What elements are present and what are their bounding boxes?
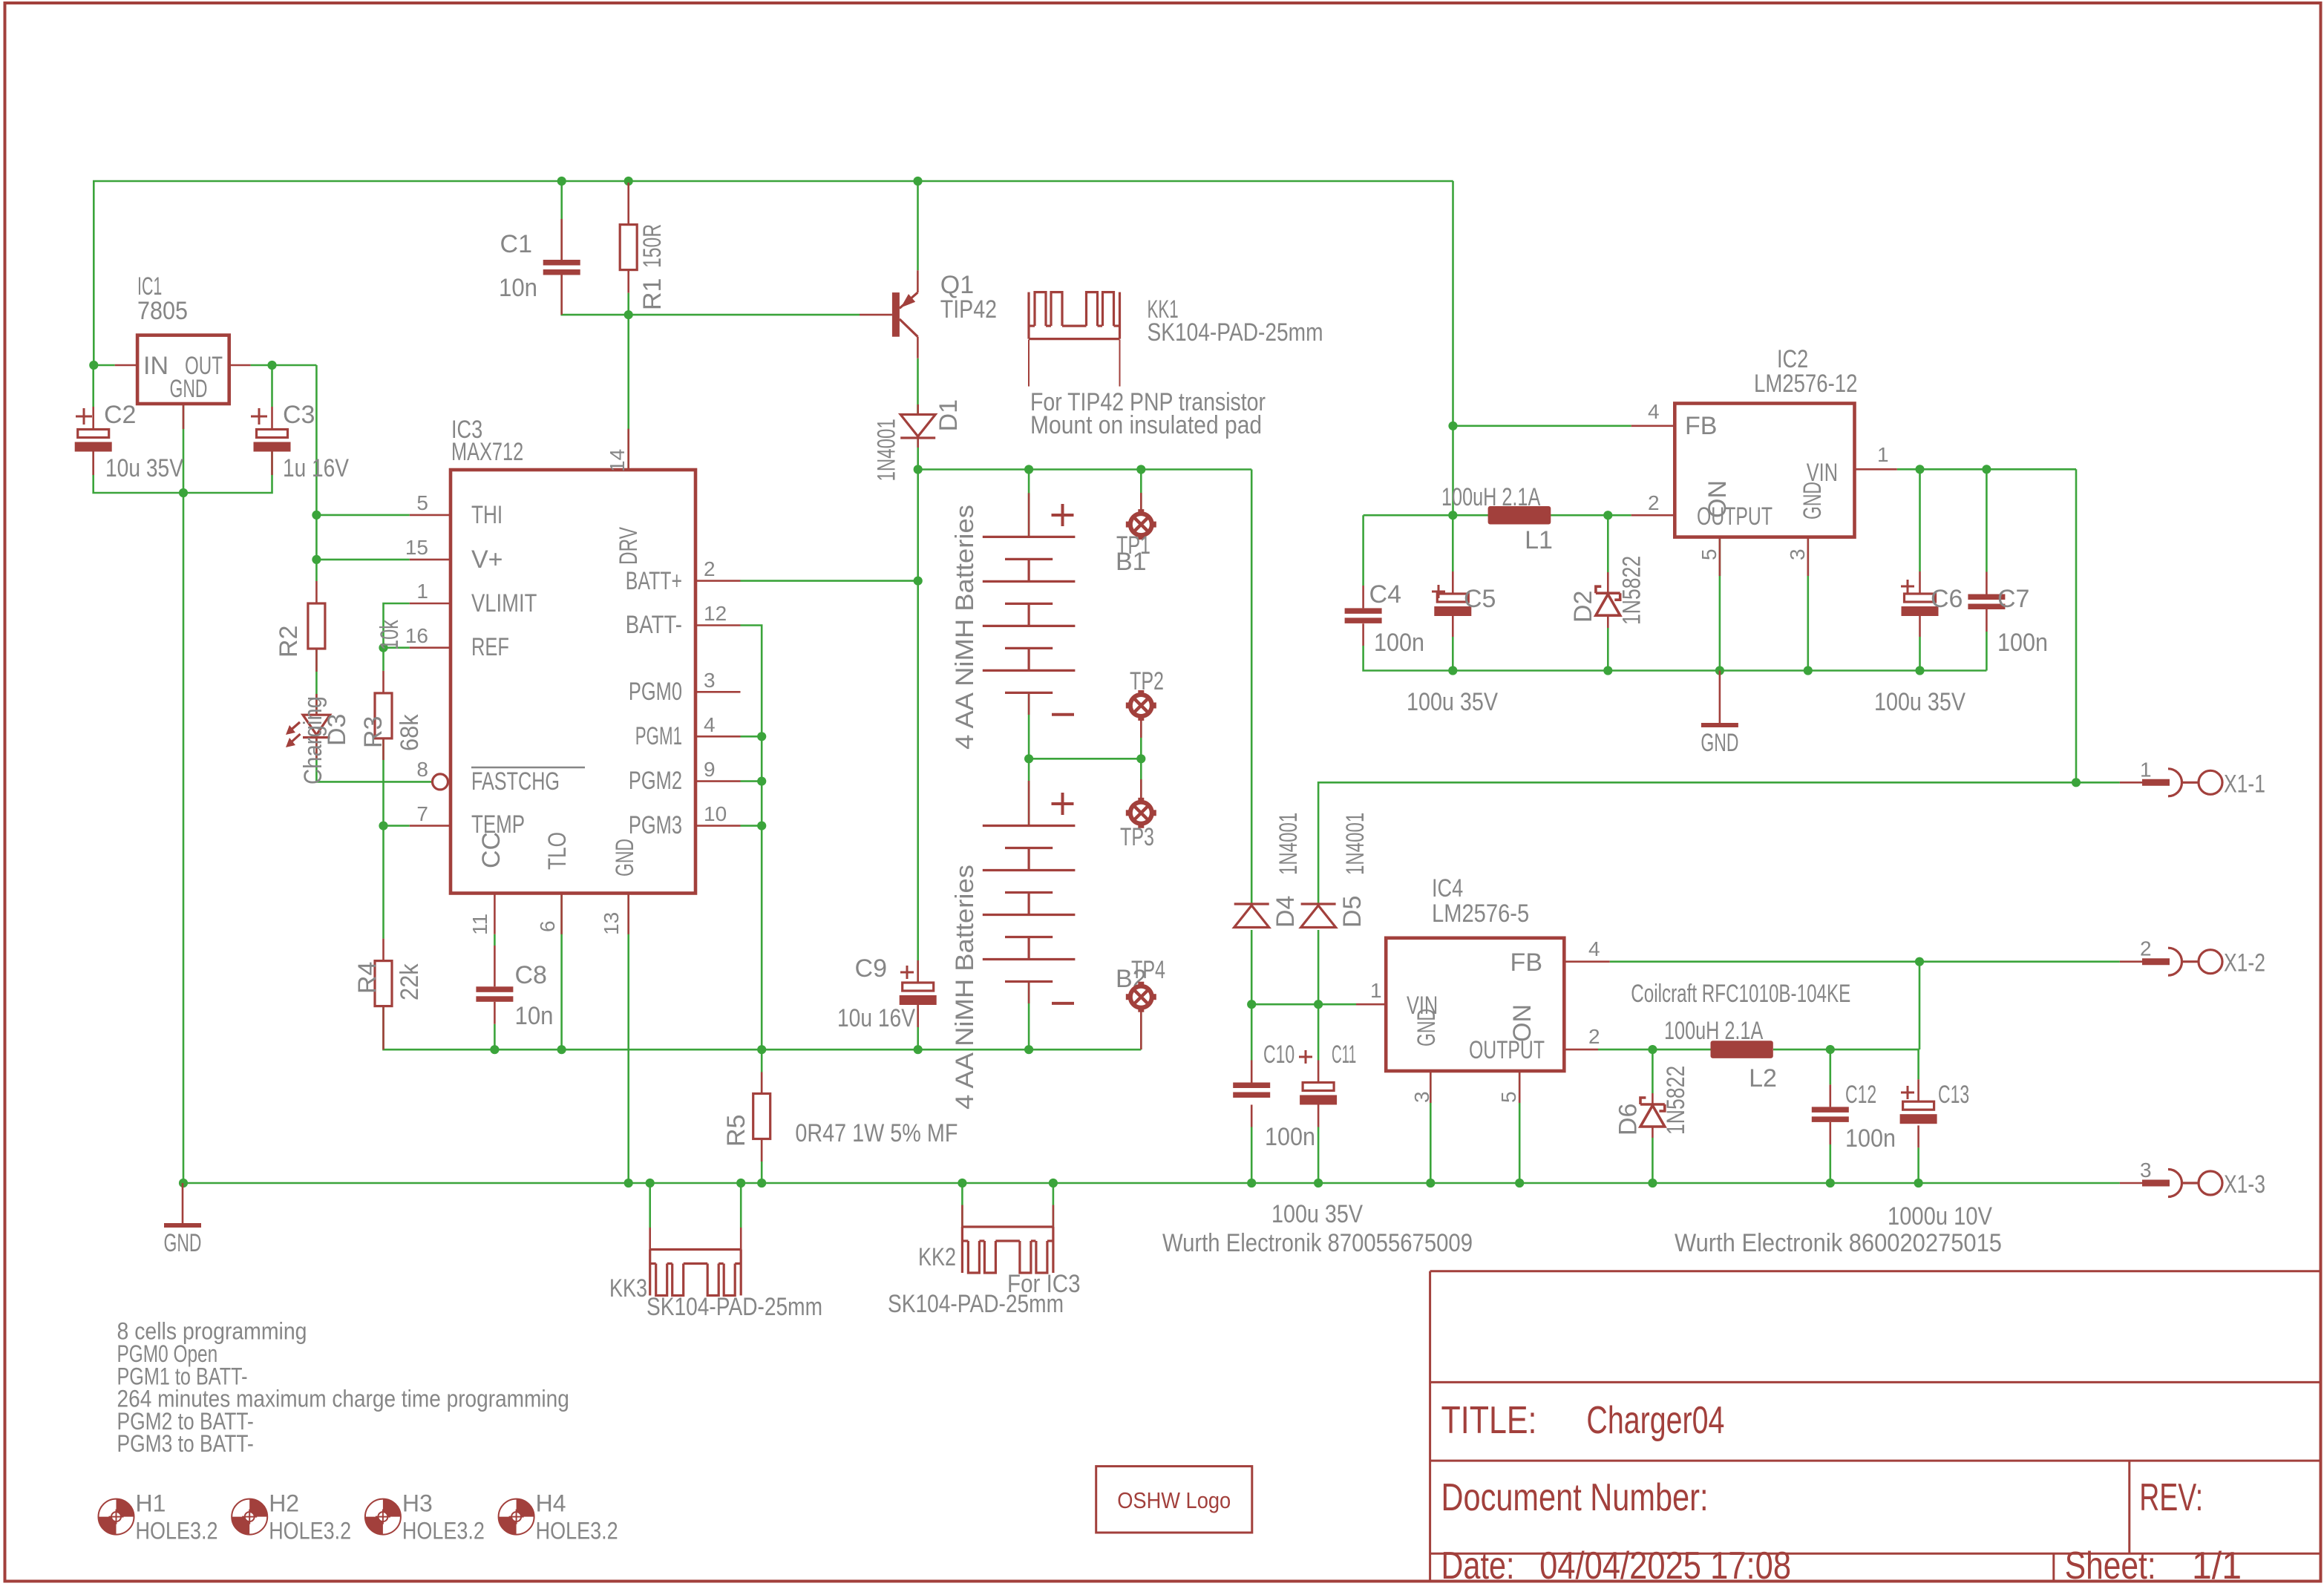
svg-text:1N5822: 1N5822 xyxy=(1617,556,1646,625)
battery B2 4 AA NiMH xyxy=(1028,781,1030,826)
capacitor C8 10n xyxy=(494,946,496,986)
wire THI stub link xyxy=(316,514,409,517)
test point TP1 xyxy=(1140,493,1142,514)
svg-text:C7: C7 xyxy=(1997,585,2029,613)
junction at (1386,1414) xyxy=(1024,1045,1033,1054)
test point TP4 xyxy=(1127,983,1155,1011)
wire GND long vertical to bottom rail xyxy=(183,493,185,1183)
svg-text:C4: C4 xyxy=(1369,580,1401,609)
svg-text:12: 12 xyxy=(704,602,727,625)
svg-text:R2: R2 xyxy=(275,626,303,658)
wire C11 bottom to rail xyxy=(1318,1105,1320,1127)
wire D2 top xyxy=(1607,515,1609,572)
svg-text:IN: IN xyxy=(143,352,168,380)
svg-text:11: 11 xyxy=(468,914,491,935)
junction at (1537,632) xyxy=(1136,465,1145,474)
wire PGM3 link xyxy=(741,825,762,827)
svg-text:PGM1: PGM1 xyxy=(635,722,682,750)
wire IC1 IN row xyxy=(94,364,114,367)
svg-text:R3: R3 xyxy=(359,716,387,748)
wire IC2 output vertical to FB and L1 row xyxy=(1452,181,1454,517)
resistor R4 22k xyxy=(375,961,392,1006)
wire X1-2 to L2 row vertical xyxy=(1919,962,1921,1049)
svg-text:4 AA NiMH Batteries: 4 AA NiMH Batteries xyxy=(951,865,979,1110)
junction at (516,873) xyxy=(379,643,387,652)
svg-text:GND: GND xyxy=(164,1229,202,1257)
wire C12 drop xyxy=(1830,1049,1832,1084)
svg-text:100n: 100n xyxy=(1374,629,1424,657)
junction at (1927,1594) xyxy=(1426,1179,1435,1187)
svg-text:1u 16V: 1u 16V xyxy=(283,454,349,482)
inductor L1 100uH xyxy=(1488,514,1551,517)
wire GND pin13 drop to rail xyxy=(627,894,629,1184)
svg-text:2: 2 xyxy=(704,557,716,580)
svg-text:3: 3 xyxy=(2140,1159,2152,1182)
wire B2 top stub xyxy=(1028,759,1030,825)
wire +V top bus xyxy=(94,181,1453,365)
wire C6 bottom xyxy=(1919,616,1921,637)
wire IC1 OUT to C3/THI branch xyxy=(251,364,317,367)
svg-text:3: 3 xyxy=(704,669,716,692)
wire C8 bottom xyxy=(494,1024,496,1049)
wire IC2 gnd bus xyxy=(1453,669,1986,672)
junction at (876,1594) xyxy=(646,1179,655,1187)
junction at (1776,1353) xyxy=(1314,1000,1323,1009)
svg-text:X1-3: X1-3 xyxy=(2224,1170,2265,1199)
svg-text:68k: 68k xyxy=(396,714,424,751)
junction at (2466,1594) xyxy=(1826,1179,1835,1187)
wire R3 bottom to TEMP junction xyxy=(382,738,384,939)
wire C11 drop xyxy=(1318,1004,1320,1060)
diode D1 1N4001 xyxy=(917,404,919,415)
capacitor C4 100n xyxy=(1345,608,1382,614)
svg-text:GND: GND xyxy=(170,375,208,403)
connector pin X1-3 xyxy=(2120,1182,2142,1185)
wire Q1 collector to D1 xyxy=(917,358,919,414)
wire IC4 FB row to X1-2 xyxy=(1610,960,2120,963)
resistor R3 68k xyxy=(382,671,384,693)
svg-text:CC: CC xyxy=(477,832,505,868)
svg-text:Charger04: Charger04 xyxy=(1586,1399,1724,1442)
wire C4 left branch xyxy=(1362,515,1364,586)
svg-text:14: 14 xyxy=(606,449,629,472)
svg-text:PGM2: PGM2 xyxy=(629,767,682,795)
wire top bus to BATT+ and C9 xyxy=(917,470,919,983)
wire KK3 left leg xyxy=(649,1183,651,1228)
svg-text:TIP42: TIP42 xyxy=(940,295,997,324)
wire D6 bottom to rail xyxy=(1652,1138,1654,1183)
LED D3 Charging xyxy=(315,694,318,715)
svg-text:6: 6 xyxy=(536,920,559,932)
junction at (1957,694) xyxy=(1448,511,1457,520)
capacitor C3 xyxy=(257,430,288,438)
wire bottom GND rail xyxy=(183,1182,2120,1185)
wire C1 bottom to Q1 base xyxy=(562,271,860,315)
mounting hole H1 xyxy=(117,1499,134,1517)
wire IC2 pin3 drop xyxy=(1807,537,1810,671)
svg-text:100u 35V: 100u 35V xyxy=(1874,688,1965,716)
junction at (516,1113) xyxy=(379,822,387,830)
svg-text:1N4001: 1N4001 xyxy=(1274,813,1303,875)
svg-text:IC4: IC4 xyxy=(1432,874,1463,902)
svg-text:BATT+: BATT+ xyxy=(626,567,682,595)
junction at (847,424) xyxy=(624,310,633,319)
junction at (1237,632) xyxy=(914,465,923,474)
wire IC2 FB row xyxy=(1453,425,1631,427)
svg-text:HOLE3.2: HOLE3.2 xyxy=(269,1518,351,1544)
inductor L2 100uH Coilcraft xyxy=(1711,1041,1773,1058)
wire C1 top drop xyxy=(560,181,563,260)
svg-text:PGM3 to BATT-: PGM3 to BATT- xyxy=(117,1430,254,1457)
junction at (2676,632) xyxy=(1982,465,1991,474)
battery B1 4 AA NiMH xyxy=(1028,493,1030,537)
LED D3 arrows xyxy=(289,722,300,732)
wire PGM1 link xyxy=(741,735,762,738)
svg-text:H3: H3 xyxy=(402,1490,433,1517)
wire R4 bottom corner to BATT- bus xyxy=(384,1005,1142,1049)
svg-text:GND: GND xyxy=(1798,482,1827,520)
junction at (426,754) xyxy=(312,555,321,564)
wire C12 bottom to rail xyxy=(1830,1122,1832,1144)
wire TEMP stub link xyxy=(384,825,410,827)
junction at (1386,1022) xyxy=(1024,754,1033,763)
svg-text:5: 5 xyxy=(1698,548,1721,560)
wire VLIMIT to REF link xyxy=(384,603,410,671)
wire TP4 stub xyxy=(1140,1008,1142,1049)
svg-text:H4: H4 xyxy=(536,1490,566,1517)
charge controller IC3 MAX712 xyxy=(451,470,695,894)
junction at (2586,904) xyxy=(1915,666,1924,675)
svg-text:HOLE3.2: HOLE3.2 xyxy=(136,1518,218,1544)
wire TP1 stub xyxy=(1140,470,1142,514)
svg-text:R4: R4 xyxy=(353,962,382,994)
svg-text:C13: C13 xyxy=(1938,1081,1969,1109)
junction at (2166,694) xyxy=(1603,511,1612,520)
wire battery top bus xyxy=(918,468,1252,471)
svg-text:5: 5 xyxy=(1497,1091,1520,1103)
wire D3 cathode to FASTCHG xyxy=(316,738,431,782)
ground symbol bottom left xyxy=(182,1183,184,1224)
svg-text:16: 16 xyxy=(405,624,428,647)
svg-text:13: 13 xyxy=(600,912,623,935)
wire R5 top xyxy=(761,1049,763,1093)
svg-text:D2: D2 xyxy=(1569,591,1597,623)
ground symbol IC2 GND xyxy=(1719,671,1721,724)
wire V+ stub link xyxy=(316,559,409,561)
svg-text:D5: D5 xyxy=(1338,896,1366,928)
svg-text:4: 4 xyxy=(1588,937,1600,960)
junction at (2047,1594) xyxy=(1515,1179,1524,1187)
junction at (1958,574) xyxy=(1448,422,1457,430)
svg-text:10u 16V: 10u 16V xyxy=(837,1004,915,1032)
svg-text:PGM0: PGM0 xyxy=(629,678,682,706)
pin 14 DRV stub xyxy=(627,429,629,470)
svg-text:0R47 1W 5% MF: 0R47 1W 5% MF xyxy=(795,1119,958,1147)
diode D5 1N4001 xyxy=(1301,902,1336,905)
wire IC1 GND drop xyxy=(183,404,185,493)
capacitor C5 100u 35V xyxy=(1437,594,1468,602)
mounting hole H2 xyxy=(249,1499,267,1517)
svg-text:1: 1 xyxy=(1877,443,1889,466)
svg-text:GND: GND xyxy=(611,839,639,877)
junction at (1026,992) xyxy=(757,732,766,741)
regulator IC2 LM2576-12 xyxy=(1675,404,1854,537)
resistor R2 10k xyxy=(315,581,318,603)
svg-text:10n: 10n xyxy=(515,1002,554,1030)
junction at (2166,904) xyxy=(1603,666,1612,675)
junction at (1237,783) xyxy=(914,577,923,586)
wire IC2 L1 row (C4 to OUTPUT pin) xyxy=(1364,514,1488,517)
junction at (2466,1414) xyxy=(1826,1045,1835,1054)
junction at (1686,1594) xyxy=(1247,1179,1256,1187)
junction at (247,664) xyxy=(179,488,188,497)
wire C7 drop xyxy=(1986,469,1988,571)
svg-text:LM2576-12: LM2576-12 xyxy=(1754,370,1857,398)
schottky diode D2 1N5822 xyxy=(1607,572,1609,593)
wire battery bus to D4 xyxy=(1251,470,1253,905)
title block frame xyxy=(1430,1271,2321,1582)
wire IC2 VIN row xyxy=(1897,468,2076,471)
wire C3 drop xyxy=(271,365,273,407)
svg-text:15: 15 xyxy=(405,536,428,559)
svg-text:3: 3 xyxy=(1410,1091,1433,1103)
svg-text:10: 10 xyxy=(704,802,727,825)
svg-text:7: 7 xyxy=(416,802,428,825)
svg-text:2: 2 xyxy=(2140,937,2152,960)
wire C13 bottom to rail xyxy=(1917,1125,1919,1147)
svg-text:L2: L2 xyxy=(1749,1064,1777,1092)
wire IC2 pin5 drop xyxy=(1719,537,1721,671)
diode D4 1N4001 xyxy=(1234,902,1269,905)
svg-text:3: 3 xyxy=(1786,548,1809,560)
svg-text:100u 35V: 100u 35V xyxy=(1407,688,1498,716)
capacitor C6 100u 35V xyxy=(1905,594,1936,602)
wire OUT vertical down to THI/V+ (node VCC5) xyxy=(315,365,318,581)
resistor R1 150R xyxy=(627,183,629,225)
wire BATT- to PGM chain xyxy=(741,626,762,1050)
wire B1 bottom to mid node xyxy=(1028,692,1030,759)
wire IC4 OUTPUT row with L2 xyxy=(1598,1049,1711,1051)
svg-text:TP2: TP2 xyxy=(1130,667,1164,695)
svg-text:V+: V+ xyxy=(471,545,503,574)
wire C8 pin11 drop xyxy=(494,934,496,946)
svg-text:8: 8 xyxy=(416,758,428,781)
svg-text:HOLE3.2: HOLE3.2 xyxy=(402,1518,485,1544)
junction at (426,694) xyxy=(312,511,321,520)
mounting hole H3 xyxy=(383,1499,401,1517)
junction at (2226,1594) xyxy=(1648,1179,1657,1187)
svg-text:Document Number:: Document Number: xyxy=(1441,1476,1709,1519)
svg-text:PGM3: PGM3 xyxy=(629,811,682,839)
svg-text:H2: H2 xyxy=(269,1490,299,1517)
junction at (2586,1296) xyxy=(1915,957,1924,966)
svg-text:LM2576-5: LM2576-5 xyxy=(1432,900,1529,928)
svg-text:100n: 100n xyxy=(1997,629,2048,657)
wire C5 bottom xyxy=(1452,616,1454,637)
svg-text:D1: D1 xyxy=(934,399,963,431)
svg-text:SK104-PAD-25mm: SK104-PAD-25mm xyxy=(647,1293,822,1321)
capacitor C10 100n xyxy=(1233,1083,1270,1089)
capacitor C11 100u 35V xyxy=(1303,1083,1334,1091)
svg-text:BATT-: BATT- xyxy=(626,611,682,639)
wire C4 bottom to IC2 gnd bus xyxy=(1362,623,1364,646)
capacitor C2 xyxy=(78,430,109,438)
junction at (247,1594) xyxy=(179,1179,188,1187)
wire IC4 pin5 to rail xyxy=(1519,1071,1521,1183)
svg-text:C1: C1 xyxy=(500,230,532,258)
test point TP3 xyxy=(1140,779,1142,802)
junction at (2226,1414) xyxy=(1648,1045,1657,1054)
junction at (1957,904) xyxy=(1448,666,1457,675)
svg-text:1: 1 xyxy=(416,580,428,603)
heatsink KK1 SK104-PAD-25mm xyxy=(1029,292,1120,339)
OSHW logo box xyxy=(1096,1467,1252,1533)
wire L2 right to C12 C13 xyxy=(1773,1049,1919,1051)
svg-text:1: 1 xyxy=(2140,758,2152,781)
wire TP3 stub xyxy=(1140,759,1142,802)
wire REF stub link xyxy=(384,646,410,649)
svg-text:7805: 7805 xyxy=(137,297,188,325)
wire D2 bottom xyxy=(1607,628,1609,671)
wire IC4 pin3 to rail xyxy=(1430,1071,1432,1183)
svg-text:TITLE:: TITLE: xyxy=(1441,1399,1537,1442)
svg-text:Wurth Electronik 860020275015: Wurth Electronik 860020275015 xyxy=(1675,1229,2002,1257)
svg-text:DRV: DRV xyxy=(615,527,643,565)
svg-text:100n: 100n xyxy=(1845,1124,1896,1153)
wire B2 bottom to BATT- bus xyxy=(1028,982,1030,1050)
svg-text:TP4: TP4 xyxy=(1131,956,1165,984)
svg-text:150R: 150R xyxy=(638,224,667,268)
test point TP2 xyxy=(1127,692,1155,719)
svg-text:TLO: TLO xyxy=(543,832,572,870)
wire C10 drop xyxy=(1251,1004,1253,1060)
junction at (1026,1594) xyxy=(757,1179,766,1187)
svg-text:D4: D4 xyxy=(1271,896,1300,928)
wire C2 drop xyxy=(92,365,94,407)
wire C10 bottom to rail xyxy=(1251,1105,1253,1127)
capacitor C1 xyxy=(560,219,563,260)
junction at (366,492) xyxy=(267,361,276,370)
schottky diode D6 1N5822 xyxy=(1652,1093,1654,1104)
svg-text:2: 2 xyxy=(1648,491,1660,514)
wire C7 bottom xyxy=(1986,609,1988,632)
wire KK2 left leg xyxy=(961,1183,963,1227)
heatsink KK2 SK104-PAD-25mm For IC3 xyxy=(961,1205,963,1227)
svg-text:C5: C5 xyxy=(1464,585,1496,613)
svg-text:Date:: Date: xyxy=(1441,1544,1515,1588)
svg-text:1N4001: 1N4001 xyxy=(1341,813,1369,875)
junction at (757,244) xyxy=(557,177,566,186)
svg-text:THI: THI xyxy=(471,501,503,529)
svg-text:4: 4 xyxy=(1648,400,1660,423)
svg-text:C10: C10 xyxy=(1263,1041,1294,1069)
junction at (2797,1054) xyxy=(2072,778,2081,787)
junction at (1237,1414) xyxy=(914,1045,923,1054)
svg-text:GND: GND xyxy=(1413,1009,1441,1046)
svg-text:REV:: REV: xyxy=(2139,1476,2203,1519)
svg-text:1: 1 xyxy=(1370,979,1382,1002)
wire KK2 right leg xyxy=(1053,1183,1055,1227)
svg-text:Sheet:: Sheet: xyxy=(2065,1544,2156,1588)
svg-text:C12: C12 xyxy=(1845,1081,1876,1109)
junction at (1026,1414) xyxy=(757,1045,766,1054)
svg-text:1000u 10V: 1000u 10V xyxy=(1888,1202,1992,1231)
wire C9 bottom to BATT- bus xyxy=(917,1005,919,1049)
connector pin X1-1 xyxy=(2120,782,2142,784)
mounting hole H4 xyxy=(517,1499,534,1517)
junction at (847,1594) xyxy=(624,1179,633,1187)
wire D5 anode to VIN row xyxy=(1318,930,1320,1004)
capacitor C12 100n xyxy=(1812,1107,1849,1113)
wire VIN row to IC4 pin1 xyxy=(1251,1003,1356,1006)
svg-text:100u 35V: 100u 35V xyxy=(1271,1200,1363,1228)
svg-text:X1-2: X1-2 xyxy=(2224,949,2265,977)
svg-text:H1: H1 xyxy=(136,1490,166,1517)
wire C2 bottom to C3 bottom xyxy=(94,451,272,493)
junction at (666,1414) xyxy=(490,1045,499,1054)
svg-text:HOLE3.2: HOLE3.2 xyxy=(536,1518,618,1544)
svg-text:04/04/2025 17:08: 04/04/2025 17:08 xyxy=(1539,1544,1791,1588)
wire R5 bottom to rail xyxy=(761,1139,763,1184)
wire D5 top to X1-1 row xyxy=(1318,782,2120,904)
svg-text:1/1: 1/1 xyxy=(2192,1544,2242,1588)
wire TP2 stub xyxy=(1140,716,1142,759)
svg-text:GND: GND xyxy=(1701,729,1738,757)
wire B1 top stub xyxy=(1028,470,1030,537)
svg-text:C2: C2 xyxy=(104,401,136,429)
wire DRV pin14 up to R1/C1 node xyxy=(627,293,629,470)
svg-text:R1: R1 xyxy=(638,278,667,310)
wire C13 drop xyxy=(1917,1049,1919,1079)
svg-text:100n: 100n xyxy=(1265,1123,1315,1151)
svg-text:4: 4 xyxy=(704,713,716,736)
svg-text:100uH 2.1A: 100uH 2.1A xyxy=(1441,483,1541,511)
svg-text:C8: C8 xyxy=(515,961,547,989)
svg-text:ON: ON xyxy=(1508,1004,1536,1042)
svg-text:FB: FB xyxy=(1510,949,1542,977)
wire PGM2 link xyxy=(741,780,762,782)
svg-text:C6: C6 xyxy=(1931,585,1963,613)
wire KK3 right leg xyxy=(740,1183,742,1228)
svg-text:R5: R5 xyxy=(722,1115,750,1147)
svg-text:C9: C9 xyxy=(855,954,887,983)
wire Q1 emitter up to bus xyxy=(917,181,919,270)
junction at (2585,1594) xyxy=(1914,1179,1923,1187)
regulator IC4 LM2576-5 xyxy=(1386,938,1564,1071)
svg-text:1N5822: 1N5822 xyxy=(1662,1066,1690,1135)
resistor R5 0R47 xyxy=(753,1094,770,1139)
svg-text:MAX712: MAX712 xyxy=(451,438,523,466)
junction at (1026,1113) xyxy=(757,822,766,830)
junction at (1419,1594) xyxy=(1049,1179,1058,1187)
svg-text:C11: C11 xyxy=(1332,1041,1356,1069)
wire C5 drop xyxy=(1452,515,1454,571)
svg-text:Mount on insulated pad: Mount on insulated pad xyxy=(1030,411,1262,439)
junction at (2317,904) xyxy=(1715,666,1724,675)
wire D1 cathode to battery top bus xyxy=(917,439,919,470)
wire TLO pin6 drop xyxy=(560,894,563,1050)
junction at (847,244) xyxy=(624,177,633,186)
capacitor C9 10u 16V xyxy=(917,960,919,983)
junction at (757,1414) xyxy=(557,1045,566,1054)
svg-text:SK104-PAD-25mm: SK104-PAD-25mm xyxy=(1148,318,1323,347)
svg-text:10k: 10k xyxy=(376,619,404,650)
junction at (126,492) xyxy=(89,361,98,370)
pin 8 FASTCHG bubble xyxy=(448,781,451,783)
svg-text:FASTCHG: FASTCHG xyxy=(471,767,560,796)
junction at (1537,1022) xyxy=(1136,754,1145,763)
svg-text:KK2: KK2 xyxy=(918,1243,956,1271)
